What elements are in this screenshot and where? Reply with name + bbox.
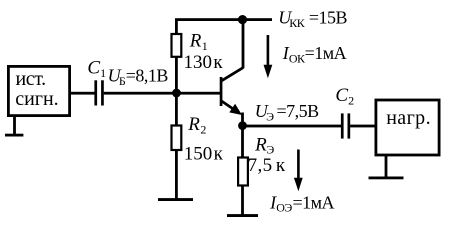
current arrow IОЭ bbox=[294, 150, 303, 192]
resistor R1 bbox=[172, 30, 224, 73]
resistor RЭ bbox=[238, 135, 286, 186]
transistor collector lead bbox=[222, 68, 244, 81]
svg-text:UЭ=7,5В: UЭ=7,5В bbox=[255, 101, 319, 123]
ground (under RЭ) bbox=[227, 214, 258, 217]
svg-text:150к: 150к bbox=[184, 143, 224, 164]
wire (C1 to base node and on to transistor base) bbox=[104, 92, 221, 95]
svg-text:7,5к: 7,5к bbox=[248, 155, 286, 176]
current arrow IОК bbox=[264, 35, 273, 78]
svg-text:ист.: ист. bbox=[16, 68, 46, 90]
node (collector rail junction) bbox=[238, 15, 247, 24]
ground (under load box) bbox=[369, 155, 404, 179]
capacitor C2 bbox=[335, 85, 354, 139]
wire (top supply rail) bbox=[175, 18, 272, 21]
node (base junction) bbox=[172, 89, 181, 98]
svg-text:нагр.: нагр. bbox=[386, 107, 431, 129]
svg-text:UБ=8,1В: UБ=8,1В bbox=[108, 66, 169, 88]
ground (under R2) bbox=[158, 198, 193, 201]
signal source box (ист. сигн.) bbox=[8, 66, 69, 115]
wire (emitter node to C2) bbox=[243, 125, 342, 128]
capacitor C1 bbox=[87, 58, 106, 106]
load box (нагр.) bbox=[376, 100, 439, 155]
svg-text:130к: 130к bbox=[184, 52, 224, 73]
node (emitter junction) bbox=[238, 121, 247, 130]
wire (base node down to R2) bbox=[175, 93, 178, 125]
wire (C2 to load box) bbox=[350, 125, 375, 128]
wire (collector vertical) bbox=[242, 20, 245, 69]
wire (base node up to R1) bbox=[175, 19, 178, 93]
svg-text:UКК=15В: UКК=15В bbox=[278, 8, 347, 30]
transistor VT (base bar) bbox=[220, 77, 223, 106]
wire (R2 to ground) bbox=[175, 150, 178, 199]
transistor emitter lead with arrow bbox=[222, 101, 243, 115]
ground (under signal source) bbox=[5, 117, 23, 137]
wire (RЭ to ground) bbox=[241, 186, 244, 216]
resistor R2 bbox=[172, 114, 224, 164]
svg-text:сигн.: сигн. bbox=[15, 88, 59, 110]
wire (source box to C1) bbox=[71, 92, 95, 95]
wire (emitter node down to RЭ) bbox=[241, 126, 244, 157]
wire (emitter down to node) bbox=[241, 113, 244, 127]
